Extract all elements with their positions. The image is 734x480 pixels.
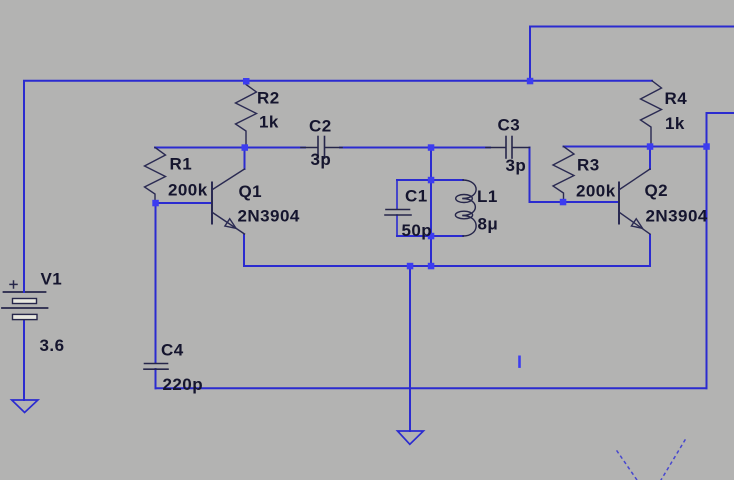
svg-text:220p: 220p bbox=[163, 375, 204, 394]
inductor L1 bbox=[455, 180, 476, 236]
plus sign of V1 bbox=[10, 283, 17, 285]
stray cursor tick bbox=[518, 356, 521, 368]
junction node right rail bbox=[703, 143, 710, 150]
junction node ground drop bbox=[407, 263, 414, 270]
svg-text:C3: C3 bbox=[498, 116, 521, 135]
wire C2 to C3 bbox=[340, 147, 490, 149]
svg-text:C1: C1 bbox=[405, 187, 428, 206]
wire mid horizontal left bbox=[155, 147, 305, 149]
wire mid horizontal right bbox=[564, 146, 707, 148]
ground at battery bbox=[12, 400, 38, 413]
resistor R4 bbox=[641, 81, 662, 147]
wire C4 to bottom rail bbox=[155, 369, 157, 388]
wire top-left rail bbox=[24, 81, 652, 291]
junction node Q2 base bbox=[560, 199, 567, 206]
capacitor C2 bbox=[301, 137, 342, 159]
junction node R2 top bbox=[243, 78, 250, 85]
resistor R3 bbox=[553, 147, 574, 203]
junction node tank bottom bbox=[428, 233, 435, 240]
svg-text:200k: 200k bbox=[168, 181, 208, 200]
junction node Q2 collector bbox=[647, 143, 654, 150]
capacitor C3 bbox=[486, 137, 530, 159]
capacitor C4 bbox=[144, 364, 168, 370]
svg-text:3p: 3p bbox=[311, 150, 332, 169]
wire tank top side bbox=[397, 179, 463, 181]
svg-text:C4: C4 bbox=[161, 341, 184, 360]
resistor R2 bbox=[236, 81, 257, 148]
svg-text:200k: 200k bbox=[576, 182, 616, 201]
junction node feedback top bbox=[527, 78, 534, 85]
svg-text:R4: R4 bbox=[665, 89, 688, 108]
wire Q1 collector stub bbox=[244, 148, 246, 170]
wire right edge stub bbox=[707, 113, 734, 388]
svg-text:L1: L1 bbox=[477, 187, 498, 206]
junction node tank top bbox=[428, 177, 435, 184]
wire tank bottom side bbox=[397, 235, 463, 237]
junction node tank bottom rail bbox=[428, 263, 435, 270]
svg-text:2N3904: 2N3904 bbox=[238, 207, 300, 226]
junction node Q1 base bbox=[152, 200, 159, 207]
svg-text:3.6: 3.6 bbox=[40, 336, 65, 355]
wire battery bottom lead bbox=[23, 320, 25, 400]
ground at tank bbox=[398, 431, 424, 444]
svg-text:2N3904: 2N3904 bbox=[646, 207, 708, 226]
svg-text:Q1: Q1 bbox=[239, 182, 263, 201]
svg-text:50p: 50p bbox=[402, 221, 433, 240]
svg-text:R3: R3 bbox=[577, 156, 600, 175]
svg-text:1k: 1k bbox=[665, 114, 685, 133]
wire Q2 collector stub bbox=[649, 147, 651, 170]
wire C3 to Q2 base bbox=[530, 148, 620, 203]
svg-text:R2: R2 bbox=[257, 89, 280, 108]
svg-text:V1: V1 bbox=[41, 270, 63, 289]
wire Q1 base bbox=[156, 202, 212, 204]
wire tank left side bbox=[396, 180, 398, 209]
wire top-right feedback bbox=[530, 27, 734, 81]
wire ground drop bbox=[409, 266, 411, 431]
transistor Q1 bbox=[212, 169, 245, 234]
junction node tank top wire bbox=[428, 144, 435, 151]
ghost ground dashed bbox=[617, 440, 685, 480]
wire emitter rail bbox=[244, 235, 650, 266]
resistor R1 bbox=[145, 148, 166, 204]
wire bottom long rail bbox=[156, 387, 707, 389]
wire tank center vertical bbox=[430, 148, 432, 267]
svg-text:3p: 3p bbox=[506, 156, 527, 175]
svg-text:Q2: Q2 bbox=[645, 181, 669, 200]
transistor Q2 bbox=[619, 169, 650, 234]
battery V1 bbox=[2, 281, 48, 320]
svg-text:8μ: 8μ bbox=[478, 215, 499, 234]
svg-text:R1: R1 bbox=[170, 155, 193, 174]
svg-text:C2: C2 bbox=[309, 117, 332, 136]
wire R1 node to C4 bbox=[155, 203, 157, 363]
capacitor C1 bbox=[385, 210, 411, 216]
svg-text:1k: 1k bbox=[259, 113, 279, 132]
junction node Q1 collector bbox=[242, 144, 249, 151]
wire battery top lead bbox=[23, 285, 25, 292]
